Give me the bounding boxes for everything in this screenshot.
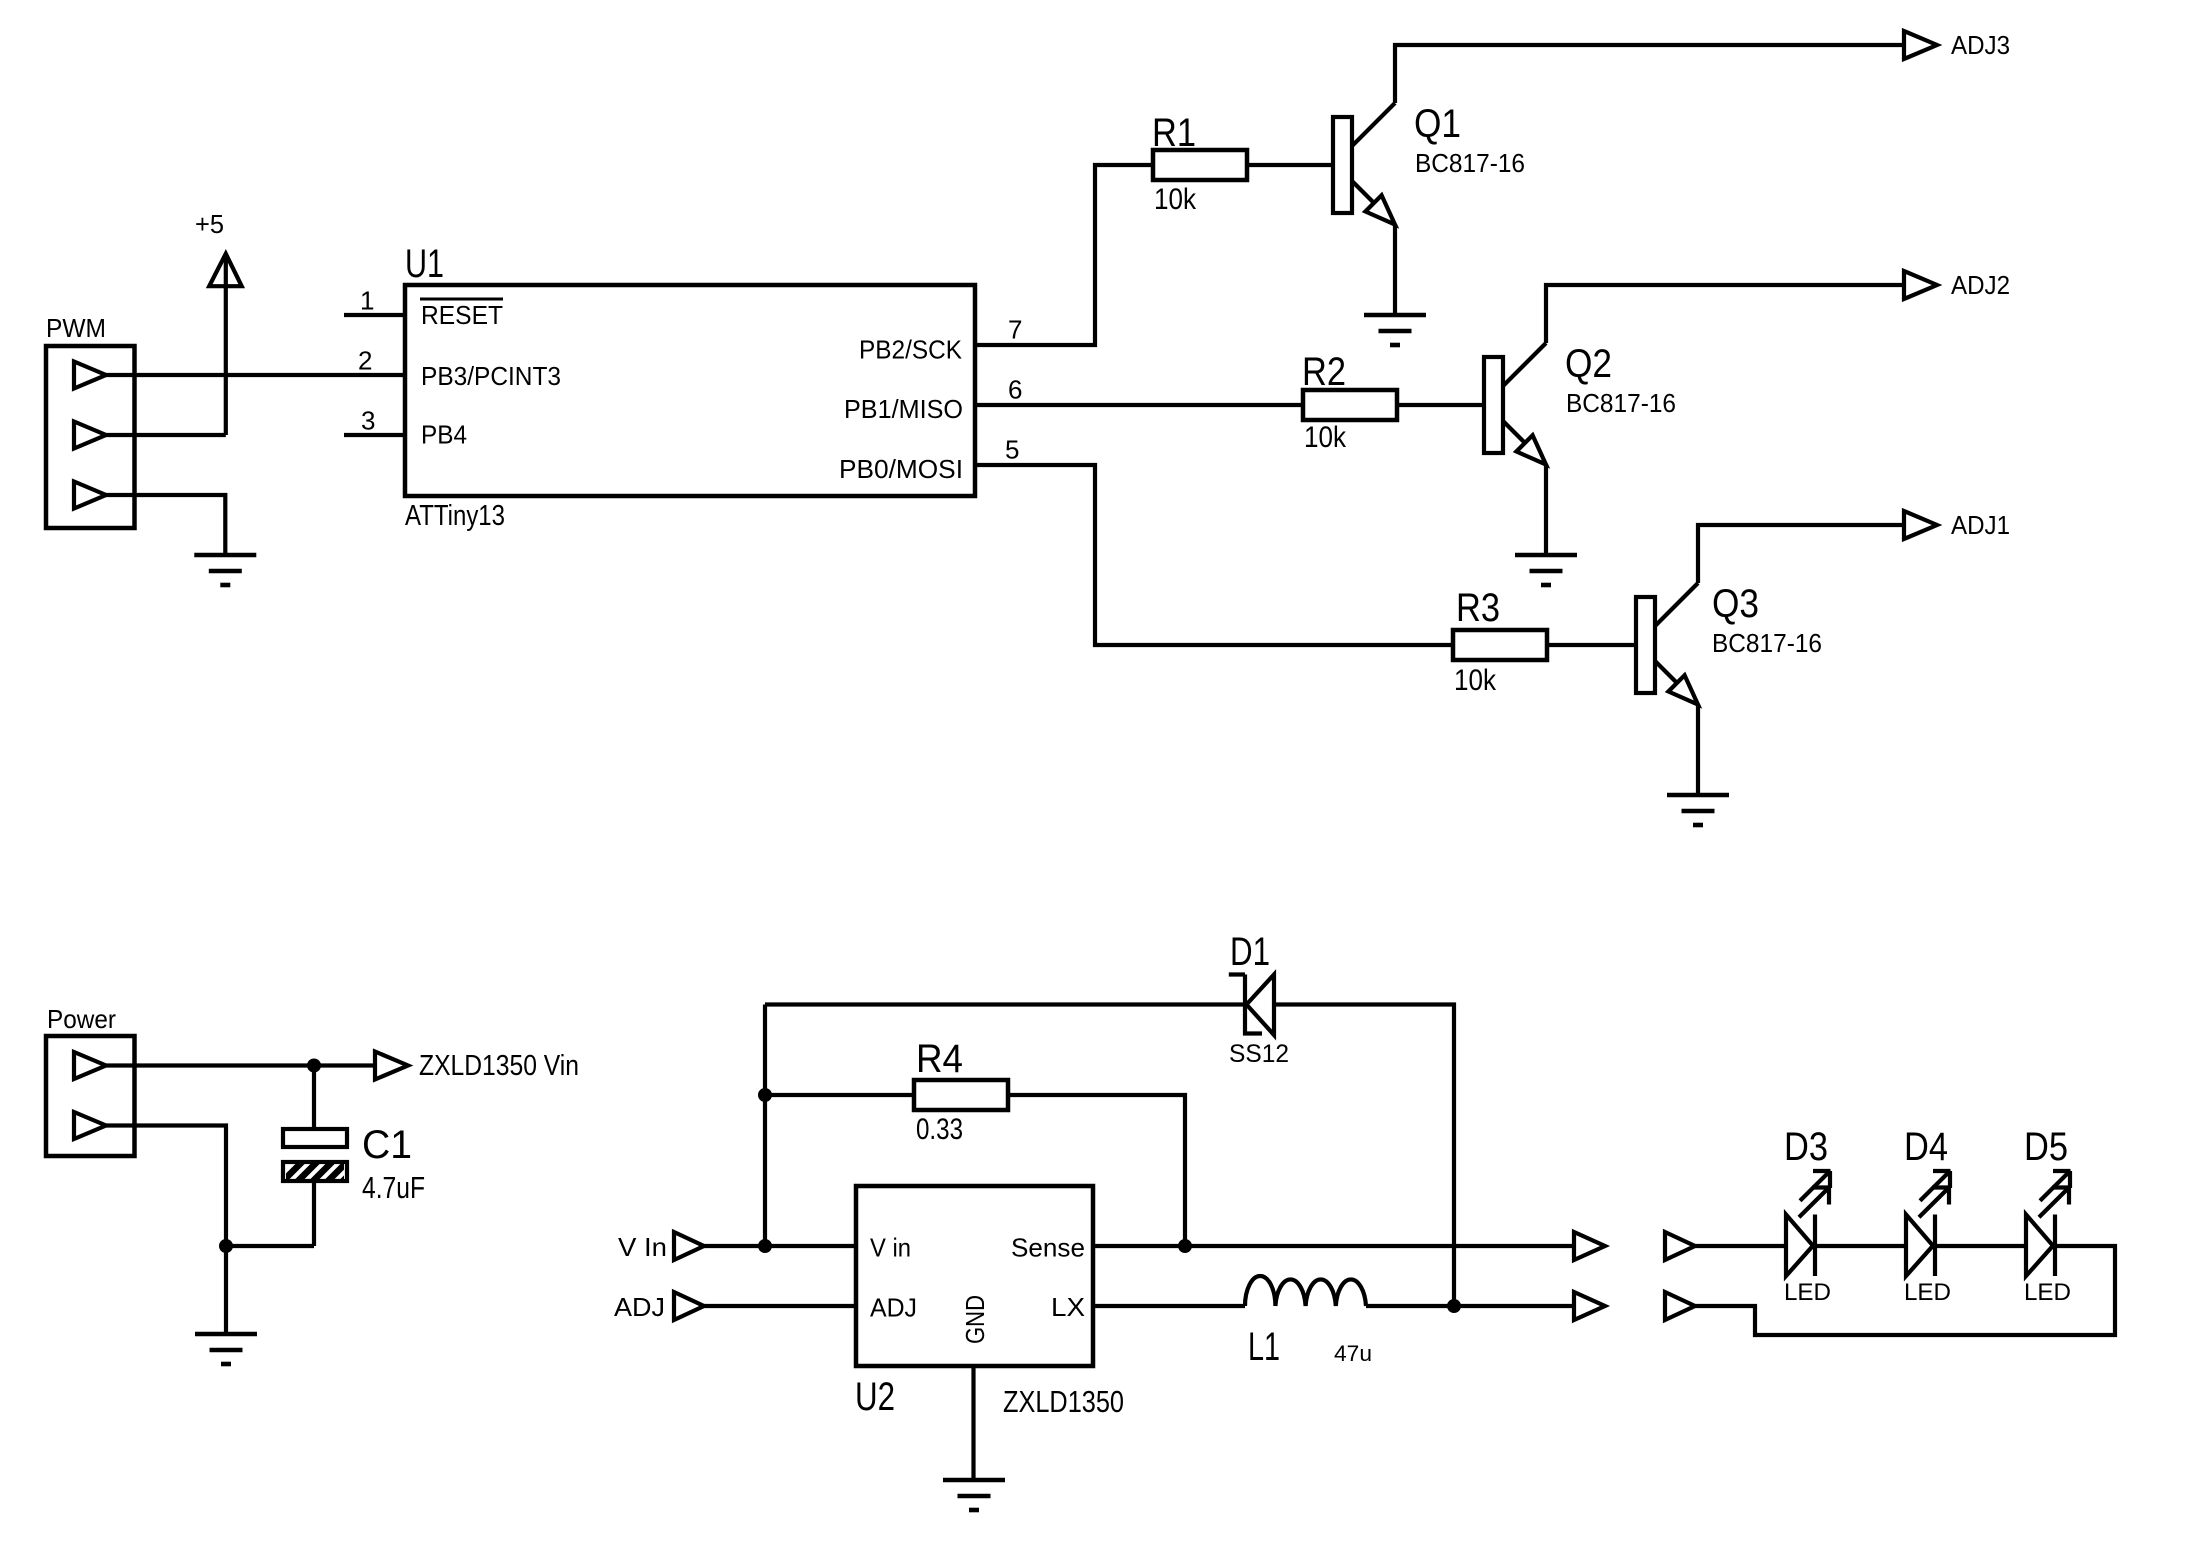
- wire Q1 collector to ADJ3: [1395, 45, 1904, 103]
- svg-text:1: 1: [360, 286, 374, 316]
- svg-text:LED: LED: [1784, 1279, 1831, 1306]
- pin 1 RESET wire: [344, 286, 405, 316]
- svg-text:U1: U1: [405, 242, 444, 286]
- connector PWM: [46, 313, 135, 528]
- wire feedback vertical: [763, 1005, 767, 1247]
- net flag Sense output: [1574, 1232, 1605, 1260]
- inductor L1 47u: [1245, 1276, 1372, 1369]
- wire Sense to output flag: [1093, 1244, 1574, 1248]
- ground GND of Q2: [1515, 555, 1577, 585]
- net flag ZXLD1350 Vin: [375, 1050, 579, 1082]
- svg-text:D1: D1: [1230, 930, 1270, 974]
- net flag ADJ3: [1904, 30, 2010, 60]
- net flag V In: [618, 1232, 704, 1262]
- transistor Q1 BC817-16: [1333, 102, 1525, 225]
- power +5 symbol: [195, 209, 242, 435]
- svg-text:BC817-16: BC817-16: [1712, 628, 1822, 658]
- svg-text:PB2/SCK: PB2/SCK: [859, 335, 963, 365]
- svg-text:0.33: 0.33: [916, 1113, 963, 1146]
- svg-text:PB1/MISO: PB1/MISO: [844, 394, 963, 424]
- net flag LX output: [1574, 1292, 1605, 1320]
- LED D3: [1784, 1125, 1831, 1306]
- svg-text:ATTiny13: ATTiny13: [405, 500, 505, 532]
- net flag ADJ: [614, 1292, 704, 1322]
- IC U2 ZXLD1350: [855, 1186, 1124, 1419]
- wire Q2 emitter to ground: [1544, 464, 1548, 555]
- wire ADJ to U2 ADJ pin: [704, 1304, 856, 1308]
- wire Power pin2 to ground junction: [106, 1126, 226, 1247]
- svg-text:10k: 10k: [1454, 664, 1497, 697]
- junction node Sense: [1178, 1239, 1192, 1253]
- wire junction to ground: [224, 1246, 228, 1334]
- net flag ADJ2: [1904, 270, 2010, 300]
- svg-text:PB0/MOSI: PB0/MOSI: [839, 454, 963, 484]
- svg-text:R1: R1: [1152, 111, 1196, 155]
- wire PWM pin2 to +5 rail: [106, 433, 226, 437]
- svg-text:10k: 10k: [1154, 183, 1197, 216]
- svg-text:7: 7: [1008, 315, 1022, 345]
- svg-text:D3: D3: [1784, 1125, 1828, 1169]
- pin 7 wire PB2/SCK to R1: [975, 165, 1153, 345]
- svg-text:Q3: Q3: [1712, 582, 1759, 626]
- resistor R4 0.33: [914, 1037, 1008, 1146]
- svg-text:ZXLD1350: ZXLD1350: [1003, 1384, 1124, 1419]
- svg-text:5: 5: [1005, 435, 1019, 465]
- svg-text:Sense: Sense: [1011, 1233, 1085, 1263]
- wire Q3 collector to ADJ1: [1698, 525, 1904, 583]
- svg-text:LED: LED: [2024, 1279, 2071, 1306]
- svg-text:L1: L1: [1248, 1325, 1280, 1369]
- LED D4: [1904, 1125, 1951, 1306]
- transistor Q2 BC817-16: [1484, 342, 1676, 465]
- wire D5 return loop: [1695, 1246, 2115, 1335]
- wire V In to U2 V in pin: [704, 1244, 856, 1248]
- svg-text:C1: C1: [362, 1123, 412, 1167]
- wire R2 to Q2 base: [1397, 403, 1484, 407]
- wire PWM pin3 to ground: [106, 495, 225, 555]
- wire U2 GND to ground: [971, 1366, 975, 1480]
- wire LX to L1: [1093, 1304, 1245, 1308]
- resistor R3 10k: [1453, 586, 1547, 697]
- svg-text:ADJ3: ADJ3: [1951, 30, 2010, 60]
- wire L1 to output flag: [1366, 1304, 1574, 1308]
- svg-text:R2: R2: [1302, 350, 1346, 394]
- svg-text:D4: D4: [1904, 1125, 1948, 1169]
- wire Q3 emitter to ground: [1696, 704, 1700, 795]
- svg-text:RESET: RESET: [421, 300, 503, 330]
- svg-text:BC817-16: BC817-16: [1415, 148, 1525, 178]
- svg-text:LED: LED: [1904, 1279, 1951, 1306]
- ground GND of Q3: [1667, 795, 1729, 825]
- svg-text:PB4: PB4: [421, 420, 467, 450]
- junction node R4 tap: [758, 1088, 772, 1102]
- capacitor C1 4.7uF: [226, 1066, 425, 1247]
- svg-text:LX: LX: [1051, 1292, 1085, 1322]
- wire R4 to Sense node: [1008, 1095, 1185, 1246]
- svg-text:D5: D5: [2024, 1125, 2068, 1169]
- ground GND of PWM: [194, 555, 256, 585]
- junction node Power ground: [219, 1239, 233, 1253]
- wire Q2 collector to ADJ2: [1546, 285, 1904, 343]
- ground GND of Power: [195, 1334, 257, 1364]
- net flag LED string anode input: [1665, 1232, 1695, 1260]
- svg-text:ADJ2: ADJ2: [1951, 270, 2010, 300]
- diode D1 SS12: [1229, 930, 1289, 1068]
- wire Q1 emitter to ground: [1393, 224, 1397, 315]
- svg-text:Q1: Q1: [1414, 102, 1461, 146]
- svg-text:GND: GND: [960, 1295, 990, 1344]
- wire D1 to LX node: [1274, 1005, 1454, 1307]
- svg-text:ADJ: ADJ: [870, 1293, 917, 1323]
- ground GND of U2: [943, 1480, 1005, 1510]
- junction node V in: [758, 1239, 772, 1253]
- svg-text:10k: 10k: [1304, 421, 1347, 454]
- svg-text:Power: Power: [47, 1004, 116, 1034]
- svg-text:V In: V In: [618, 1232, 667, 1262]
- svg-text:3: 3: [361, 406, 375, 436]
- svg-text:SS12: SS12: [1229, 1040, 1289, 1068]
- svg-text:ADJ1: ADJ1: [1951, 510, 2010, 540]
- svg-text:PB3/PCINT3: PB3/PCINT3: [421, 361, 561, 391]
- svg-text:BC817-16: BC817-16: [1566, 388, 1676, 418]
- svg-text:ZXLD1350 Vin: ZXLD1350 Vin: [419, 1050, 579, 1082]
- svg-text:U2: U2: [855, 1375, 895, 1419]
- wire D3 to D4: [1815, 1244, 1906, 1248]
- wire to R4: [765, 1093, 914, 1097]
- svg-text:6: 6: [1008, 375, 1022, 405]
- pin 6 wire PB1/MISO to R2: [975, 375, 1303, 406]
- svg-text:V in: V in: [870, 1233, 911, 1263]
- wire PWM pin1 to U1 PB3: [106, 373, 406, 377]
- wire Power pin1 to Vin flag: [106, 1063, 375, 1067]
- svg-text:2: 2: [358, 346, 372, 376]
- LED D5: [2024, 1125, 2071, 1306]
- wire to D3: [1695, 1244, 1786, 1248]
- ground GND of Q1: [1364, 315, 1426, 345]
- svg-text:47u: 47u: [1334, 1341, 1372, 1366]
- wire R3 to Q3 base: [1547, 643, 1636, 647]
- resistor R1 10k: [1152, 111, 1247, 216]
- svg-text:+5: +5: [195, 209, 224, 239]
- pin 5 wire PB0/MOSI to R3: [975, 435, 1453, 646]
- IC U1 ATTiny13: [405, 242, 975, 532]
- wire D4 to D5: [1935, 1244, 2026, 1248]
- wire feedback top to D1: [765, 1002, 1243, 1006]
- net flag ADJ1: [1904, 510, 2010, 540]
- pin 3 PB4 wire: [344, 406, 405, 436]
- svg-text:R4: R4: [916, 1037, 963, 1081]
- svg-text:4.7uF: 4.7uF: [362, 1170, 425, 1205]
- resistor R2 10k: [1302, 350, 1397, 454]
- wire R1 to Q1 base: [1247, 163, 1333, 167]
- net flag LED string return input: [1665, 1292, 1695, 1320]
- svg-text:PWM: PWM: [46, 313, 106, 343]
- junction node LX: [1447, 1299, 1461, 1313]
- connector Power: [46, 1004, 135, 1156]
- svg-text:Q2: Q2: [1565, 342, 1612, 386]
- svg-text:ADJ: ADJ: [614, 1292, 665, 1322]
- junction node Vin/C1: [307, 1059, 321, 1073]
- svg-text:R3: R3: [1456, 586, 1500, 630]
- transistor Q3 BC817-16: [1636, 582, 1822, 705]
